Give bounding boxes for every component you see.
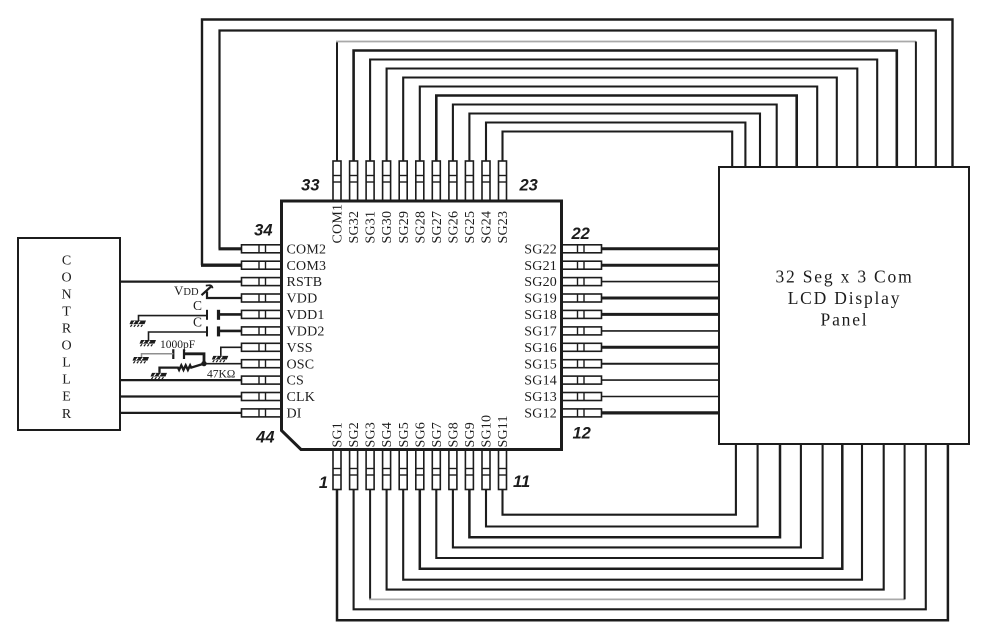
svg-text:SG7: SG7 [430,422,445,448]
wire COM2 to panel second loop [220,31,936,249]
svg-text:SG6: SG6 [413,422,428,448]
svg-text:1: 1 [319,474,328,492]
pin 8 SG8 [447,422,462,490]
svg-text:SG21: SG21 [524,259,557,274]
pin 35 COM3 [242,259,327,274]
wire SG18 to panel [602,313,720,316]
svg-text:SG3: SG3 [364,422,379,448]
svg-text:SG23: SG23 [496,211,511,244]
wire COM3 pin stub [201,264,242,267]
svg-text:CS: CS [287,374,305,389]
pin 24 SG24 [480,161,495,244]
ground for 1000pF [133,357,150,363]
pin 19 SG19 [524,292,601,307]
pin 32 SG32 [347,161,362,244]
svg-text:O: O [61,339,71,354]
pin 36 RSTB [242,275,323,290]
wire CS to controller [120,379,242,381]
pin 39 VDD2 [242,325,325,340]
svg-text:COM1: COM1 [331,204,346,244]
wire SG6 to panel [420,444,843,569]
LCD display panel [719,167,969,444]
svg-text:22: 22 [571,225,590,243]
capacitor 1000pF [173,349,184,359]
svg-text:SG27: SG27 [430,211,445,244]
pin 38 VDD1 [242,308,325,323]
svg-text:SG10: SG10 [480,415,495,448]
pin 15 SG15 [524,357,601,372]
wire SG16 to panel [602,346,720,349]
wire C1 to ground [139,316,208,321]
pin 7 SG7 [430,422,445,490]
wire SG4 to panel [387,444,884,590]
wire SG24 to panel [486,123,745,168]
ground for C2 [140,340,157,346]
wire VSS to ground [221,347,242,356]
wire SG30 to panel [387,69,858,168]
svg-text:COM2: COM2 [287,242,327,257]
svg-text:1000pF: 1000pF [160,339,195,351]
pin 2 SG2 [347,422,362,490]
pin 42 CS [242,374,305,389]
wire SG25 to panel [469,114,760,168]
svg-text:SG19: SG19 [524,292,557,307]
svg-text:SG26: SG26 [447,211,462,244]
svg-text:47KΩ: 47KΩ [207,369,235,381]
wire SG15 to panel [602,363,720,365]
ground for VSS [212,356,229,362]
svg-text:L: L [62,373,71,388]
wire 1000pF left to ground [142,354,174,357]
svg-text:N: N [61,287,71,302]
wire SG23 to panel [503,132,733,168]
pin 21 SG21 [524,259,601,274]
capacitor C1 [207,310,242,320]
svg-text:CLK: CLK [287,390,316,405]
svg-text:DI: DI [287,407,302,422]
pin 44 DI [242,407,302,422]
svg-text:SG18: SG18 [524,308,557,323]
wire OSC pin to node [204,363,242,365]
wire SG8 to panel [453,444,801,547]
pin 13 SG13 [524,390,601,405]
wire SG20 to panel [602,281,720,283]
svg-text:SG28: SG28 [413,211,428,244]
svg-text:E: E [62,390,71,405]
svg-text:SG24: SG24 [480,211,495,244]
svg-text:12: 12 [573,425,591,443]
svg-text:SG11: SG11 [496,415,511,447]
wire SG32 to panel [354,51,897,168]
svg-text:SG32: SG32 [347,211,362,244]
svg-text:L: L [62,356,71,371]
pin 16 SG16 [524,341,601,356]
wire SG31 to panel [370,60,877,168]
capacitor C2 [207,326,242,336]
svg-text:32 Seg x 3 Com: 32 Seg x 3 Com [776,267,914,287]
svg-text:SG1: SG1 [331,422,346,448]
svg-text:SG9: SG9 [463,422,478,448]
pin 20 SG20 [524,275,601,290]
svg-text:SG20: SG20 [524,275,557,290]
wire SG11 to panel [503,444,736,515]
pin 9 SG9 [463,422,478,490]
svg-text:33: 33 [301,177,319,195]
svg-text:VDD1: VDD1 [287,308,325,323]
svg-text:T: T [62,305,71,320]
svg-text:C: C [193,298,202,313]
wire CLK to controller [120,395,242,397]
svg-text:O: O [61,270,71,285]
svg-text:34: 34 [254,222,272,240]
pin 40 VSS [242,341,313,356]
controller box [18,238,120,430]
wire SG27 to panel [436,96,796,168]
wire SG5 to panel [403,444,862,580]
wire RSTB to controller [120,281,242,283]
wire SG12 to panel [602,411,720,414]
pin 10 SG10 [480,415,495,490]
svg-text:VDD: VDD [287,292,318,307]
junction OSC node [201,361,206,366]
pin 18 SG18 [524,308,601,323]
wire SG3 to panel [369,444,905,599]
pin 25 SG25 [463,161,478,244]
svg-text:Panel: Panel [821,310,869,330]
svg-text:44: 44 [255,429,274,447]
svg-text:C: C [62,253,71,268]
pin 3 SG3 [364,422,379,490]
svg-text:23: 23 [519,177,538,195]
pin 14 SG14 [524,374,601,389]
svg-text:RSTB: RSTB [287,275,323,290]
wire DI to controller [120,412,242,414]
svg-text:SG16: SG16 [524,341,557,356]
pin 12 SG12 [524,407,601,422]
wire SG28 to panel [420,87,817,168]
ground for resistor [151,373,168,379]
wire C2 to ground [149,332,208,340]
svg-text:LCD Display: LCD Display [788,288,902,308]
svg-text:SG5: SG5 [397,422,412,448]
svg-text:VDD2: VDD2 [287,325,325,340]
svg-text:SG13: SG13 [524,390,557,405]
wire COM3 to panel outer loop [202,20,953,266]
pin 4 SG4 [380,422,395,490]
pin 37 VDD [242,292,318,307]
svg-text:R: R [62,407,72,422]
pin 26 SG26 [447,161,462,244]
pin 31 SG31 [364,161,379,244]
pin 5 SG5 [397,422,412,490]
wire SG13 to panel [602,396,720,398]
pin 22 SG22 [524,242,601,257]
wire COM1 to panel [336,42,916,168]
wire SG17 to panel [602,330,720,332]
svg-text:SG30: SG30 [380,211,395,244]
svg-text:C: C [193,315,202,330]
svg-text:SG2: SG2 [347,422,362,448]
svg-text:SG22: SG22 [524,242,557,257]
pin 27 SG27 [430,161,445,244]
wire 1000pF right to OSC node [184,354,204,364]
wire SG2 to panel [354,444,926,609]
chip U1 44-pin LCD driver body outline [282,201,562,450]
pin 6 SG6 [413,422,428,490]
pin 41 OSC [242,357,315,372]
svg-text:SG4: SG4 [380,422,395,448]
pin 1 SG1 [331,422,346,490]
svg-text:11: 11 [513,473,530,491]
wire SG19 to panel [602,297,720,300]
wire COM2 pin stub [219,247,242,250]
svg-text:SG12: SG12 [524,407,557,422]
pin 23 SG23 [496,161,511,244]
svg-text:OSC: OSC [287,357,315,372]
svg-text:SG14: SG14 [524,374,557,389]
pin 29 SG29 [397,161,412,244]
VDD supply switch symbol [202,285,213,295]
wire SG1 to panel [337,444,948,620]
pin 30 SG30 [380,161,395,244]
pin 17 SG17 [524,325,601,340]
resistor 47K ohm [160,364,205,373]
svg-text:R: R [62,322,72,337]
wire SG10 to panel [486,444,758,527]
wire SG7 to panel [436,444,822,558]
wire SG29 to panel [403,78,837,168]
pin 34 COM2 [242,242,327,257]
wire SG22 to panel [602,247,720,250]
svg-text:SG8: SG8 [447,422,462,448]
svg-text:SG31: SG31 [364,211,379,244]
wire SG9 to panel [469,444,780,537]
wire SG21 to panel [602,264,720,267]
wire SG14 to panel [602,379,720,381]
wire VDD pin stub [207,292,242,299]
wire SG26 to panel [453,105,777,168]
pin 28 SG28 [413,161,428,244]
svg-text:COM3: COM3 [287,259,327,274]
ground for C1 [130,321,147,327]
svg-text:VSS: VSS [287,341,313,356]
svg-text:SG29: SG29 [397,211,412,244]
svg-text:SG15: SG15 [524,357,557,372]
svg-text:SG25: SG25 [463,211,478,244]
pin 11 SG11 [496,415,511,489]
pin 33 COM1 [331,161,346,244]
svg-text:SG17: SG17 [524,325,557,340]
pin 43 CLK [242,390,316,405]
